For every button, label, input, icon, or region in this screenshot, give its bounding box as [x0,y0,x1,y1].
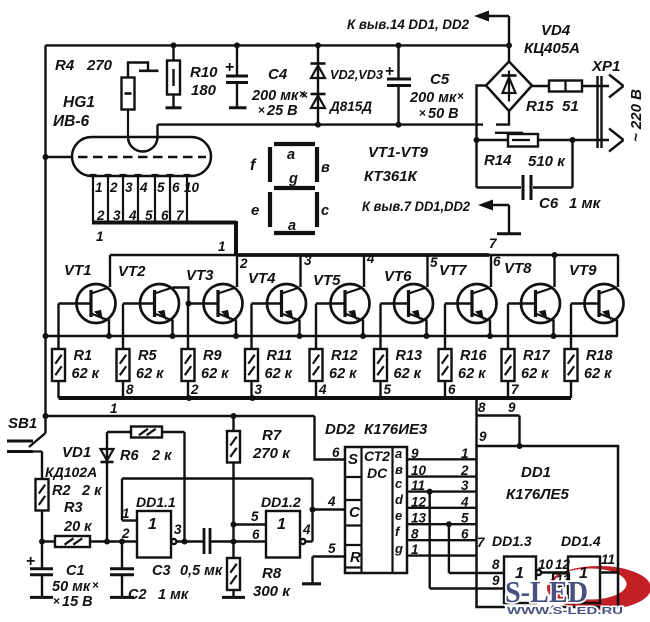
svg-text:3: 3 [174,522,182,537]
svg-text:e: e [395,508,402,523]
svg-text:R10: R10 [190,64,218,81]
svg-text:1 мк: 1 мк [158,587,189,603]
svg-text:62 к: 62 к [265,366,293,382]
svg-text:d: d [395,492,404,507]
svg-text:1: 1 [277,516,286,533]
svg-text:1: 1 [411,542,419,557]
svg-text:VT5: VT5 [313,272,341,289]
svg-text:1: 1 [148,516,157,533]
svg-text:62 к: 62 к [521,366,549,382]
svg-text:13: 13 [411,511,427,526]
svg-text:12: 12 [411,494,427,509]
svg-text:в: в [395,462,403,477]
svg-text:DD1.1: DD1.1 [136,494,176,510]
svg-text:R7: R7 [262,427,282,444]
svg-text:10: 10 [184,180,200,195]
svg-text:9: 9 [492,573,500,588]
svg-text:VT1-VT9: VT1-VT9 [368,144,429,161]
svg-text:6: 6 [461,527,469,542]
svg-text:8: 8 [411,527,419,542]
svg-text:HG1: HG1 [63,94,95,111]
svg-text:6: 6 [172,180,180,195]
svg-text:10: 10 [411,463,427,478]
svg-text:WWW.S-LED.RU: WWW.S-LED.RU [507,605,623,617]
svg-text:5: 5 [430,255,438,270]
svg-text:200 мк: 200 мк [409,90,457,106]
svg-text:c: c [395,476,403,491]
svg-text:К176ЛЕ5: К176ЛЕ5 [506,486,570,503]
svg-text:5: 5 [461,511,469,526]
svg-text:8: 8 [478,400,486,415]
svg-text:9: 9 [411,446,419,461]
svg-text:0,5 мк: 0,5 мк [180,563,223,579]
svg-text:×: × [92,578,99,592]
svg-text:C2: C2 [128,587,147,603]
svg-text:VT2: VT2 [118,263,146,280]
svg-text:S: S [348,451,358,468]
svg-text:300 к: 300 к [253,583,291,600]
svg-text:VD2,VD3: VD2,VD3 [330,67,384,82]
svg-text:10: 10 [538,557,554,572]
svg-text:×: × [258,103,265,117]
svg-text:3: 3 [125,180,133,195]
svg-text:510 к: 510 к [528,153,566,170]
svg-text:VT3: VT3 [186,267,214,284]
svg-text:200 мк: 200 мк [251,88,299,104]
svg-text:ИВ-6: ИВ-6 [53,113,90,130]
svg-text:c: c [321,203,329,219]
svg-text:11: 11 [411,478,425,493]
svg-text:2 к: 2 к [151,448,172,464]
svg-text:6: 6 [493,254,501,269]
svg-text:Д815Д: Д815Д [329,99,372,114]
svg-text:R11: R11 [267,348,293,364]
svg-text:+: + [225,59,234,76]
svg-text:e: e [251,202,259,219]
svg-text:VD1: VD1 [62,444,91,461]
svg-text:DD1: DD1 [521,464,551,481]
svg-text:4: 4 [366,251,375,266]
svg-text:R9: R9 [203,348,222,364]
svg-text:5: 5 [328,541,336,556]
svg-text:50 В: 50 В [428,106,459,122]
svg-text:2: 2 [190,382,199,397]
svg-text:C3: C3 [152,563,171,579]
svg-text:1: 1 [96,229,104,244]
svg-text:270 к: 270 к [252,445,291,462]
svg-text:К выв.14 DD1, DD2: К выв.14 DD1, DD2 [347,17,469,32]
svg-text:6: 6 [252,527,260,542]
svg-text:11: 11 [601,552,615,567]
svg-text:DD1.2: DD1.2 [261,494,301,510]
svg-text:6: 6 [332,445,340,460]
svg-text:R2: R2 [52,483,71,499]
svg-text:R16: R16 [460,348,488,364]
svg-text:ХР1: ХР1 [591,58,620,75]
svg-text:R5: R5 [138,348,157,364]
svg-text:62 к: 62 к [201,366,229,382]
svg-text:6: 6 [448,382,456,397]
svg-text:4: 4 [318,382,327,397]
svg-text:5: 5 [157,180,165,195]
svg-text:R12: R12 [331,348,358,364]
svg-text:25 В: 25 В [266,103,298,119]
svg-text:8: 8 [126,382,134,397]
svg-text:+: + [385,63,394,80]
svg-text:62 к: 62 к [458,366,486,382]
svg-text:~ 220 В: ~ 220 В [628,89,645,142]
svg-text:×: × [419,106,426,120]
svg-text:КЦ405А: КЦ405А [524,40,580,57]
svg-text:2: 2 [239,256,248,271]
svg-text:S-LED: S-LED [505,574,588,609]
svg-text:9: 9 [508,400,516,415]
svg-text:DD2: DD2 [325,421,356,438]
svg-text:VD4: VD4 [541,22,571,39]
svg-text:К выв.7 DD1,DD2: К выв.7 DD1,DD2 [362,199,470,214]
svg-text:5: 5 [384,382,392,397]
svg-text:в: в [321,160,330,176]
svg-text:62 к: 62 к [136,366,164,382]
svg-text:2: 2 [109,180,118,195]
svg-text:R17: R17 [523,348,551,364]
svg-text:R18: R18 [586,348,614,364]
svg-text:СТ2: СТ2 [364,448,390,464]
svg-text:R15: R15 [526,98,554,115]
svg-text:1: 1 [110,401,118,416]
svg-text:9: 9 [479,429,487,444]
svg-text:×: × [457,89,464,103]
svg-text:2 к: 2 к [81,483,102,499]
svg-text:R6: R6 [120,448,139,464]
svg-text:1: 1 [461,446,469,461]
svg-text:×: × [301,88,308,102]
svg-text:R3: R3 [64,500,83,516]
svg-text:51: 51 [562,98,579,115]
svg-text:62 к: 62 к [584,366,612,382]
svg-text:62 к: 62 к [329,366,357,382]
svg-text:VT7: VT7 [439,262,467,279]
svg-text:КТ361К: КТ361К [364,168,419,185]
svg-text:3: 3 [304,253,312,268]
svg-text:DD1.3: DD1.3 [492,533,532,549]
svg-text:R4: R4 [55,57,75,74]
svg-text:g: g [288,171,298,187]
svg-text:3: 3 [461,478,469,493]
svg-text:20 к: 20 к [63,519,92,535]
svg-text:VT8: VT8 [504,260,532,277]
svg-text:R8: R8 [262,565,282,582]
svg-text:3: 3 [255,382,263,397]
svg-text:2: 2 [121,526,130,541]
svg-text:R13: R13 [396,348,423,364]
svg-text:а: а [288,218,296,234]
svg-text:а: а [395,446,402,461]
svg-text:5: 5 [251,509,259,524]
svg-text:VT6: VT6 [384,268,412,285]
svg-text:SB1: SB1 [8,415,37,432]
svg-text:КД102А: КД102А [45,464,97,480]
svg-text:VT1: VT1 [64,262,92,279]
svg-text:VT9: VT9 [569,262,597,279]
svg-text:R1: R1 [74,348,93,364]
svg-text:180: 180 [191,82,217,99]
svg-text:4: 4 [302,522,311,537]
svg-text:270: 270 [86,57,113,74]
svg-text:C5: C5 [430,71,450,88]
svg-text:62 к: 62 к [72,366,100,382]
svg-text:8: 8 [492,557,500,572]
svg-text:15 В: 15 В [62,594,93,610]
svg-text:C1: C1 [66,563,85,579]
svg-text:1: 1 [218,239,226,254]
svg-text:1: 1 [95,180,103,195]
svg-text:R14: R14 [484,152,512,169]
svg-text:C: C [349,504,361,521]
svg-text:а: а [287,147,295,163]
svg-text:2: 2 [460,463,469,478]
svg-text:4: 4 [460,494,469,509]
svg-text:R: R [350,549,361,566]
svg-text:4: 4 [139,180,148,195]
svg-text:VT4: VT4 [248,270,276,287]
svg-text:1 мк: 1 мк [569,195,602,212]
svg-text:62 к: 62 к [394,366,422,382]
svg-text:C4: C4 [268,66,288,83]
svg-text:1: 1 [122,506,130,521]
svg-text:С6: С6 [539,195,559,212]
svg-text:50 мк: 50 мк [52,579,91,595]
svg-text:К176ИЕ3: К176ИЕ3 [364,421,428,438]
svg-text:DC: DC [367,465,388,481]
svg-text:DD1.4: DD1.4 [561,533,601,549]
svg-text:×: × [53,594,60,608]
svg-text:g: g [394,541,403,556]
svg-text:4: 4 [327,494,336,509]
